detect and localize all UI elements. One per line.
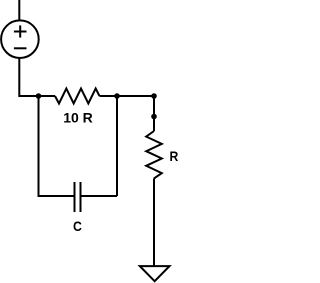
wire capacitor branch right vertical — [116, 96, 118, 196]
wire top feed into source — [18, 0, 20, 21]
node dot right junction — [114, 93, 120, 99]
resistor R zigzag — [146, 131, 162, 178]
voltage source V1 circle — [1, 20, 39, 58]
wire from resistor to right corner — [100, 95, 155, 97]
svg-text:C: C — [73, 218, 82, 234]
resistor 10R zigzag — [55, 89, 100, 104]
node dot left junction — [36, 93, 42, 99]
svg-text:R: R — [170, 148, 179, 164]
wire from source bottom to corner — [19, 58, 55, 97]
wire capacitor left horizontal — [39, 195, 74, 196]
node dot top-right corner — [151, 93, 157, 99]
capacitor C right plate — [80, 182, 82, 212]
minus sign of source — [14, 47, 27, 49]
ground symbol — [140, 266, 170, 281]
wire capacitor right horizontal — [82, 195, 118, 197]
plus sign of source — [14, 25, 27, 37]
wire resistor R to ground — [153, 178, 155, 266]
capacitor C left plate — [74, 182, 76, 212]
wire right corner down to resistor terminal — [153, 96, 155, 117]
wire capacitor branch left vertical — [38, 96, 40, 196]
node dot resistor terminal — [151, 114, 157, 120]
svg-text:10 R: 10 R — [63, 110, 93, 126]
wire into resistor R top — [153, 117, 155, 132]
